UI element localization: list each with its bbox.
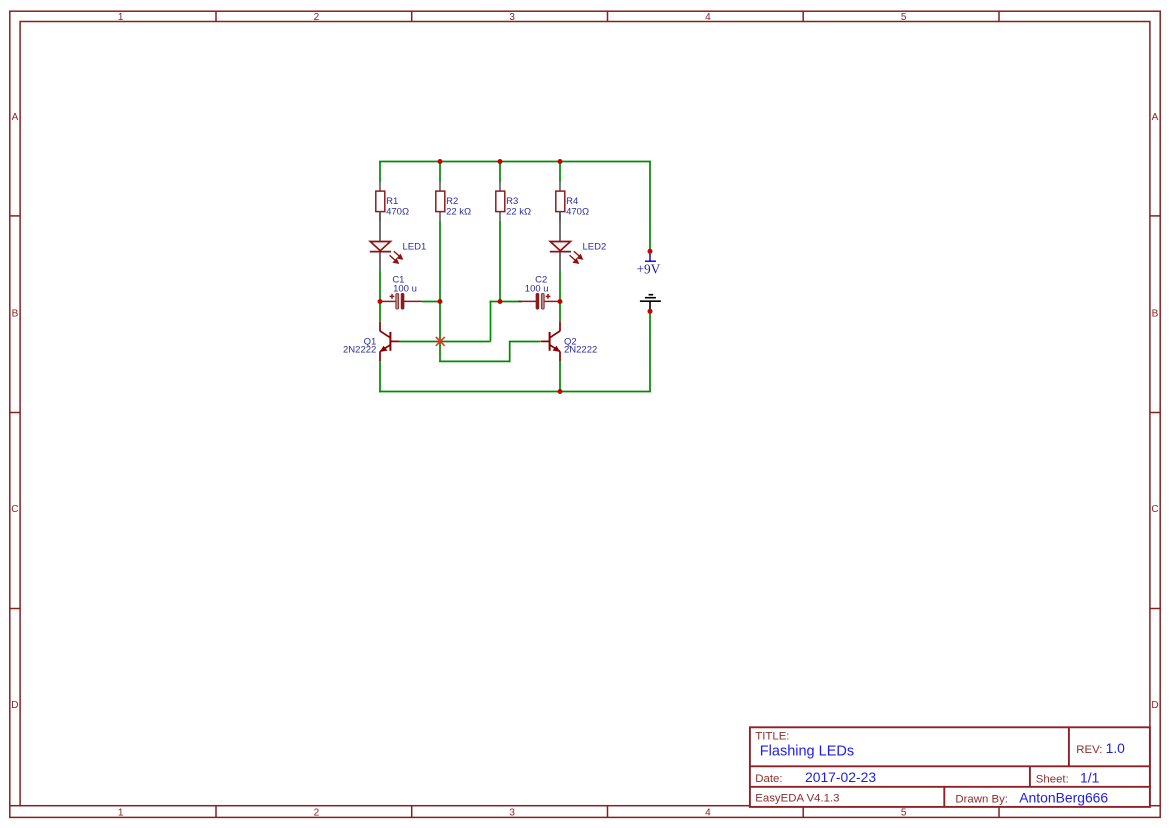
svg-text:LED2: LED2 [583,241,607,252]
svg-text:100 u: 100 u [393,284,417,295]
svg-text:C: C [1151,504,1158,515]
svg-text:1: 1 [118,807,124,818]
svg-text:+9V: +9V [636,261,660,276]
svg-text:5: 5 [901,807,907,818]
svg-text:B: B [1152,308,1159,319]
svg-text:D: D [1151,700,1158,711]
svg-text:D: D [11,700,18,711]
svg-text:C: C [11,504,18,515]
svg-text:4: 4 [705,807,711,818]
svg-text:3: 3 [509,807,515,818]
svg-text:LED1: LED1 [403,241,427,252]
svg-text:R2: R2 [446,196,458,207]
svg-text:2N2222: 2N2222 [564,344,597,355]
svg-text:4: 4 [705,12,711,23]
svg-text:1/1: 1/1 [1080,769,1100,785]
svg-text:Date:: Date: [755,773,782,785]
svg-text:470Ω: 470Ω [386,206,409,217]
svg-text:R4: R4 [566,196,578,207]
svg-text:R3: R3 [506,196,518,207]
svg-text:470Ω: 470Ω [566,206,589,217]
svg-text:B: B [12,308,19,319]
svg-text:Flashing LEDs: Flashing LEDs [760,743,854,759]
svg-text:Sheet:: Sheet: [1036,773,1069,785]
svg-text:Drawn By:: Drawn By: [955,793,1008,805]
svg-text:A: A [12,112,19,123]
svg-text:1: 1 [118,12,124,23]
svg-text:22 kΩ: 22 kΩ [506,206,531,217]
svg-text:5: 5 [901,12,907,23]
svg-text:A: A [1152,112,1159,123]
svg-text:2017-02-23: 2017-02-23 [805,769,876,785]
svg-text:REV:: REV: [1076,744,1102,756]
svg-text:TITLE:: TITLE: [755,730,789,742]
svg-text:2N2222: 2N2222 [343,344,376,355]
svg-text:1.0: 1.0 [1106,740,1126,756]
svg-text:22 kΩ: 22 kΩ [446,206,471,217]
svg-text:100 u: 100 u [525,284,549,295]
svg-text:AntonBerg666: AntonBerg666 [1019,790,1108,806]
svg-text:EasyEDA V4.1.3: EasyEDA V4.1.3 [755,793,839,805]
svg-text:3: 3 [509,12,515,23]
svg-text:2: 2 [314,12,320,23]
svg-text:2: 2 [314,807,320,818]
svg-text:R1: R1 [386,196,398,207]
